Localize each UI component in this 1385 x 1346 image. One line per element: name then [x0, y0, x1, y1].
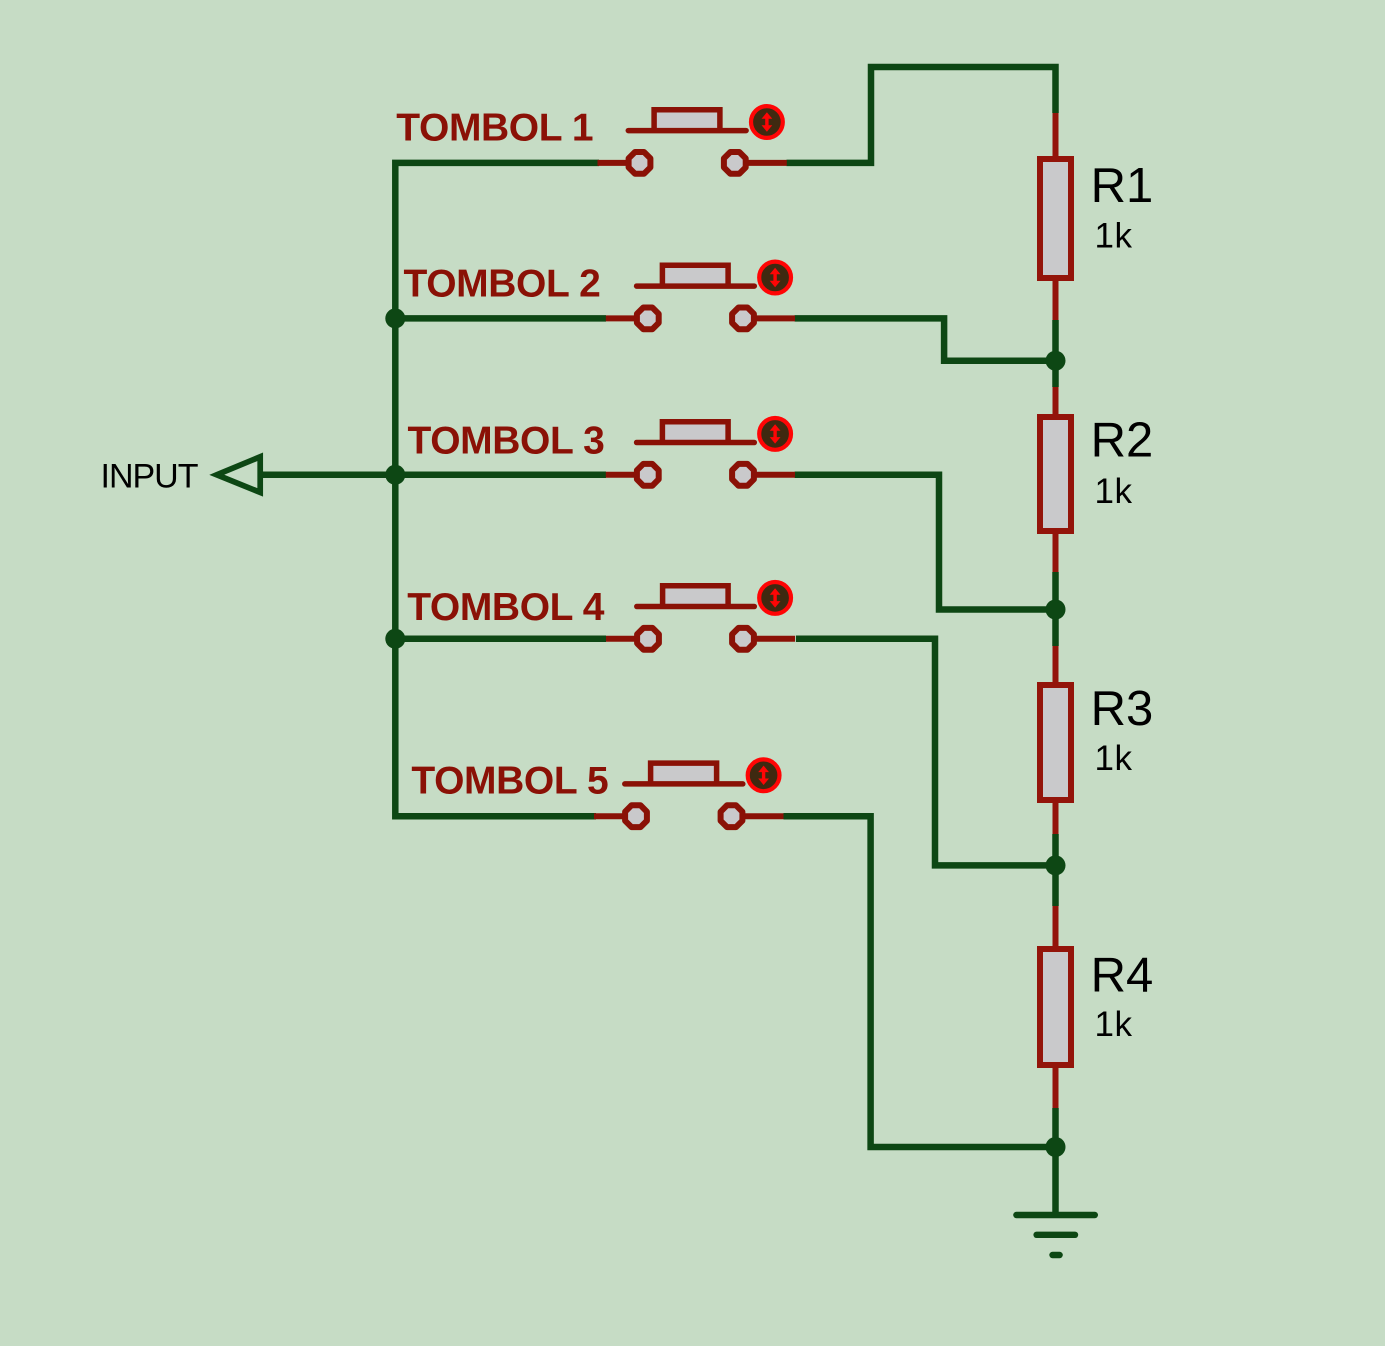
pin R3 bottom — [1053, 800, 1059, 834]
svg-text:TOMBOL 5: TOMBOL 5 — [411, 760, 608, 803]
wire TOMBOL1 to R1 top rail — [787, 67, 1056, 163]
node R4-ground junction — [1046, 1137, 1066, 1157]
svg-text:1k: 1k — [1095, 472, 1133, 511]
push button TOMBOL 3 — [606, 418, 795, 486]
pin R4 bottom — [1053, 1065, 1059, 1108]
wire resistor column R3-R4 segment — [1052, 834, 1059, 906]
node R2-R3 junction — [1046, 600, 1066, 620]
input terminal arrow — [217, 457, 260, 493]
svg-text:TOMBOL 3: TOMBOL 3 — [408, 419, 605, 462]
pin R2 top — [1053, 387, 1059, 417]
svg-text:TOMBOL 1: TOMBOL 1 — [396, 107, 593, 150]
wire TOMBOL4 to R3-R4 node — [796, 639, 1056, 866]
svg-text:1k: 1k — [1095, 739, 1133, 778]
wire resistor column R1-R2 segment — [1052, 320, 1059, 387]
svg-text:1k: 1k — [1095, 1005, 1133, 1044]
wire TOMBOL2 to R1-R2 node — [795, 318, 1056, 360]
resistor R3 body — [1040, 685, 1071, 800]
node R3-R4 junction — [1046, 855, 1066, 875]
wire left bus with TOMBOL1 and TOMBOL5 branches — [395, 163, 599, 816]
node bus-TOMBOL4 junction — [385, 629, 405, 649]
svg-text:R3: R3 — [1091, 682, 1154, 736]
push button TOMBOL 1 — [598, 106, 787, 174]
svg-text:INPUT: INPUT — [101, 458, 198, 496]
wire resistor column R2-R3 segment — [1052, 572, 1059, 646]
pin R1 bottom — [1053, 278, 1059, 320]
wire bus to TOMBOL2 — [395, 315, 606, 322]
svg-text:1k: 1k — [1095, 217, 1133, 256]
svg-text:R4: R4 — [1091, 949, 1154, 1003]
svg-text:TOMBOL 4: TOMBOL 4 — [407, 586, 605, 629]
pin R1 top — [1053, 113, 1059, 160]
node bus-INPUT-TOMBOL3 junction — [385, 465, 405, 485]
resistor R1 body — [1040, 159, 1071, 278]
node bus-TOMBOL2 junction — [385, 308, 405, 328]
wire bus to TOMBOL3 — [395, 472, 606, 479]
wire R4 to ground — [1052, 1108, 1059, 1215]
resistor R4 body — [1040, 949, 1071, 1065]
node R1-R2 junction — [1046, 351, 1066, 371]
wire TOMBOL5 to R4 bottom node — [784, 816, 1056, 1147]
pin R2 bottom — [1053, 531, 1059, 572]
ground — [1016, 1215, 1094, 1255]
svg-text:TOMBOL 2: TOMBOL 2 — [404, 263, 601, 306]
resistor R2 body — [1040, 417, 1071, 531]
wire INPUT to bus — [260, 472, 397, 479]
push button TOMBOL 5 — [594, 759, 784, 827]
wire TOMBOL3 to R2-R3 node — [795, 475, 1056, 610]
wire bus to TOMBOL4 — [395, 636, 606, 643]
pin R4 top — [1053, 906, 1059, 949]
push button TOMBOL 4 — [606, 582, 795, 650]
svg-text:R2: R2 — [1091, 414, 1154, 468]
svg-text:R1: R1 — [1091, 159, 1154, 213]
pin R3 top — [1053, 646, 1059, 685]
push button TOMBOL 2 — [606, 262, 795, 330]
